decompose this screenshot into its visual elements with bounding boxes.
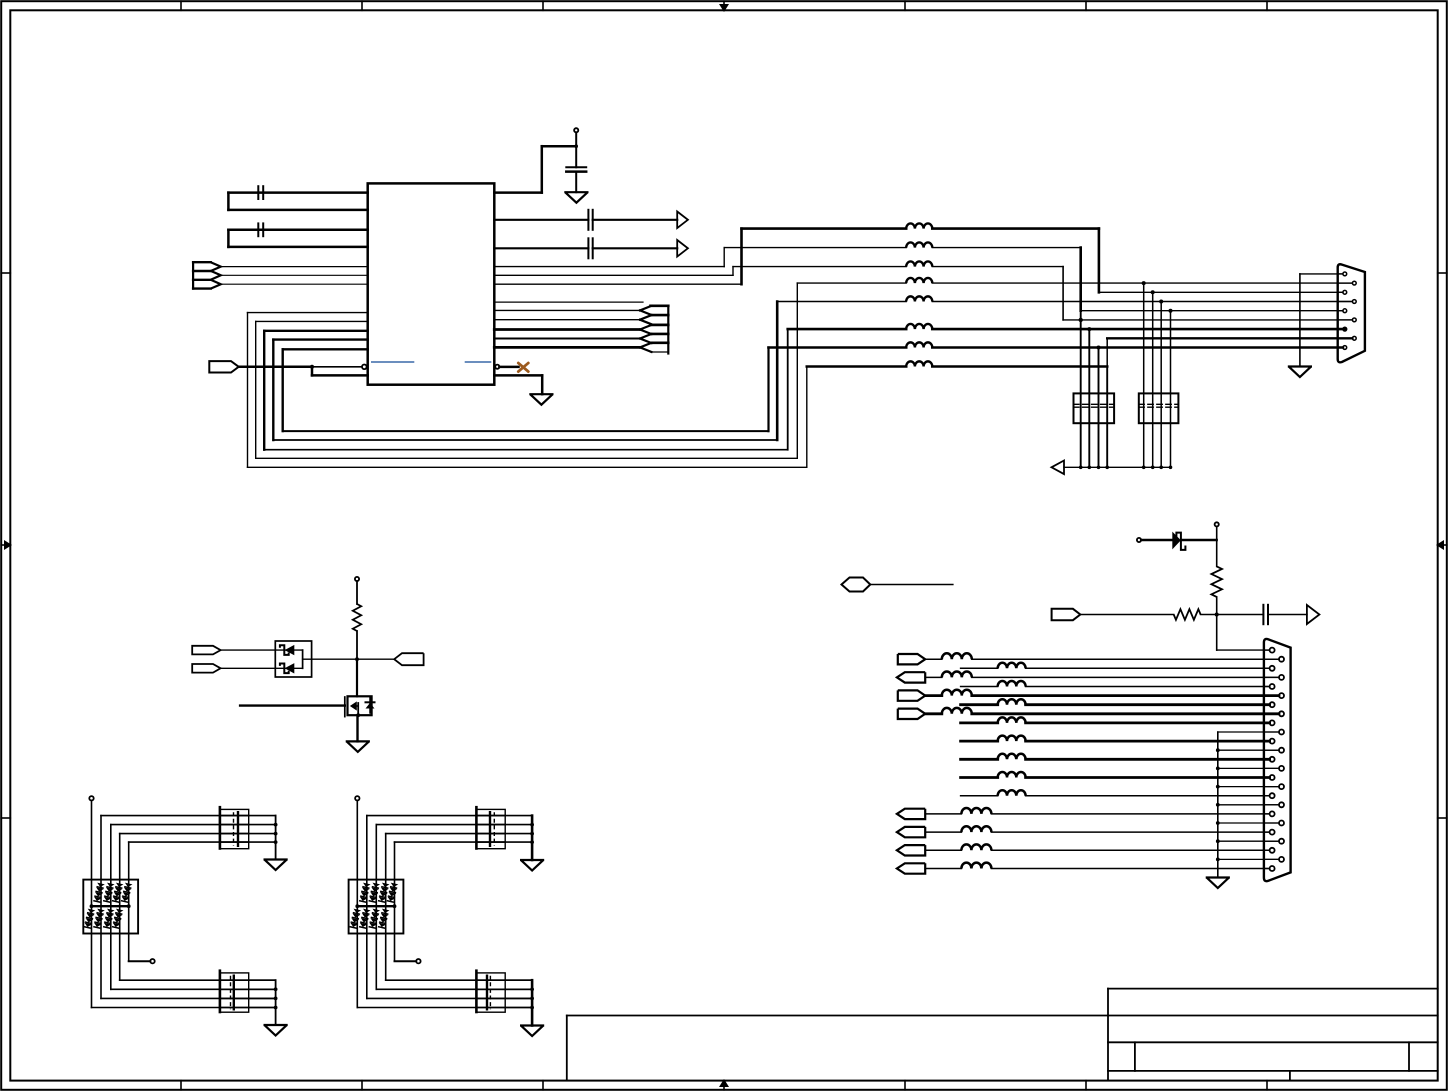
bank2 column d [385,880,387,981]
open arrow TX1 [677,212,688,229]
wire CTL2 [221,667,303,669]
connector J2 pin L12 [1270,848,1275,853]
bank2 cap block bottom plate solid [486,976,488,1010]
ground Q1 [347,741,369,752]
wire bead row 2 left [724,247,906,249]
wire bead row 8 right [932,365,1107,368]
port TXD7 [898,709,925,719]
wire row10 a [961,758,998,761]
wire NETB from U1 [494,274,733,276]
bank1 bottom coll junction [274,987,278,991]
wire bead row 6 right [932,328,1343,331]
bank1 top collector [275,816,277,860]
wire port IN3 to U1 [221,283,368,285]
dual diode D2 upper schottky bar [280,645,289,655]
frame tick top [904,1,906,10]
wire R2 to C6 [1201,614,1264,616]
wire J2 bus to R11 [1218,840,1279,842]
dual diode D2 lower schottky bar [280,664,289,674]
connector J2 pin R4 [1279,711,1284,716]
frame tick top [361,1,363,10]
ground below C3 [565,192,587,203]
bank2 diode bottom col [368,909,380,929]
wire VDD stub [575,132,577,167]
resistor network RN1 element c [1098,348,1100,468]
wire bead row 4 right [932,282,1352,284]
bus entry arrow 3 foot [651,333,669,335]
frame tick top [1085,1,1087,10]
connector J2 pin R6 [1279,748,1284,753]
resistor network RN2 element c [1160,302,1162,468]
connector J2 pin L3 [1270,684,1275,689]
bus entry arrow 2 foot [651,323,669,325]
bank1 top coll junction [274,823,278,827]
connector J2 pin R2 [1279,675,1284,680]
bus entry arrow 4 stub [651,333,669,336]
capacitor C3 plates [566,166,586,168]
ferrite bead FB19 [998,772,1026,777]
frame tick top [180,1,182,10]
bank1 bottom coll junction [274,997,278,1001]
wire J2 bus to R8 [1218,786,1279,788]
bank2 column e [394,880,396,962]
bank1 stub wire [129,960,151,962]
bank1 supply wire [91,801,93,1008]
ferrite bead FB21 [961,808,991,814]
dual diode D2 lower triangle [285,663,295,673]
bank2 bottom cap wires [476,979,532,981]
wire bead row 7 right [932,346,1343,349]
resistor network RN2 element b [1152,292,1154,467]
bus entry arrow 4 foot [651,342,669,344]
wire stub pin [494,301,643,303]
wire VDD pin [494,191,542,194]
transistor Q1 arrow [350,701,357,710]
wire row2 a [961,667,998,669]
pin circle VCC Q1 [355,577,359,581]
transistor Q1 channel stub [357,703,359,715]
wire row7 b [972,712,1279,715]
wire VDD up [541,146,544,192]
ferrite bead FB11 [942,672,972,678]
resistor network RN1 box [1074,393,1115,423]
RN2 inner dash1 [1139,403,1179,405]
wire J1 gnd bus [1299,274,1301,367]
wire D1 cathode [1182,539,1217,541]
wire row15 b [991,849,1269,851]
title block line row2 [1108,1041,1438,1043]
wire row7 a [925,712,942,715]
port TXD1 [898,654,925,664]
wire VCC Q1 [356,581,358,604]
frame tick bottom [1085,1081,1087,1090]
bank2 diode bottom col [349,909,361,929]
diode D1 [1172,532,1181,550]
wire BIDIR [870,584,953,586]
resistor R1 (vertical) [1211,566,1222,597]
wire pullup top [1216,527,1218,567]
bank1 column c [110,880,112,990]
bank2 ground top [521,860,543,871]
bank1 top coll junction [274,840,278,844]
ground J2 [1207,878,1229,889]
wire J2 bus to R9 [1218,804,1279,806]
bus entry arrow 2 upper [640,315,652,320]
wire row8 a [961,722,998,725]
bank1 bottom collector [275,980,277,1025]
wire row16 b [991,868,1269,870]
bank1 column b [100,880,102,999]
port TXD5 [898,690,925,700]
wire SIG [1080,614,1173,616]
port BIDIR [842,578,871,592]
connector J2 pin L5 [1270,720,1275,725]
connector J2 pin L10 [1270,811,1275,816]
wire row4 b [1026,686,1270,688]
no-connect X marker [518,363,528,372]
title block left edge [1107,989,1109,1081]
wire bead row 3 right [932,266,1063,268]
bank2 cap block top left bar [475,807,478,848]
wire row2 to L3 [1081,310,1343,312]
bank1 top bend y833.6 [119,834,121,880]
wire row13 b [991,813,1269,815]
IC U1 body [368,183,495,384]
ferrite bead FB22 [961,826,991,832]
bus entry arrow 1 upper [640,306,652,311]
resistor R2 (series) [1174,609,1201,620]
wire net LOOP5 right vertical [767,348,769,432]
wire C3 to gnd [575,172,577,193]
wire bead row 5 right [932,301,1352,303]
port IN1 arrow [211,262,221,271]
wire XTAL2 bottom [228,246,367,249]
transistor Q1 body [348,696,372,715]
bus entry arrow 5 foot [651,351,669,353]
junction R1/R2 [1215,613,1219,617]
frame center marker right [1442,544,1447,546]
bank2 top wire y824.6 [376,824,505,826]
wire XTAL2 left [227,230,230,247]
wire net LOOP4 bottom horizontal [273,439,777,441]
bank2 ground bottom [521,1026,543,1037]
wire row12 b [1026,795,1270,797]
bank1 bottom coll junction [274,1006,278,1010]
ferrite bead FB3 [906,261,932,266]
wire J2 gnd bus [1217,732,1219,878]
bank1 diode top col [93,883,105,903]
wire net LOOP2 right vertical [796,283,798,458]
wire TX2 from U1 [494,247,588,249]
wire row9 b [1026,740,1270,743]
dual diode D2 box [275,641,311,677]
frame tick left [1,272,10,274]
wire NETB up [732,267,734,276]
ferrite bead FB18 [998,754,1026,759]
wire XTAL1 top [228,191,367,194]
junction rail [1142,466,1146,470]
resistor network RN2 box [1139,393,1179,423]
junction J2 bus [1216,785,1220,789]
port group stub [193,261,211,263]
wire port IN2 to U1 [221,274,368,276]
bank1 bottom wire 1 [120,979,276,981]
bus entry arrow 3 lower [640,330,652,335]
connector J1 pin L3 [1343,309,1347,313]
wire net LOOP4 left vertical [272,340,274,440]
title block top edge [1108,988,1438,990]
ferrite bead FB4 [906,278,932,283]
port RXD13 [897,809,925,819]
wire row16 a [925,868,961,870]
wire net LOOP5 bottom horizontal [283,430,769,432]
junction RN1b [1087,327,1091,331]
frame tick right [1438,817,1447,819]
bank1 bottom cap wires [220,979,276,981]
frame tick bottom [361,1081,363,1090]
ferrite bead FB16 [998,717,1026,722]
junction RN2d [1169,309,1173,313]
revision box [566,1016,568,1081]
bank2 bottom wire 4 [357,1007,532,1009]
wire J2 bus to R10 [1218,822,1279,824]
wire net LOOP2 bottom horizontal [256,457,798,459]
wire row5 a [925,694,942,697]
wire C6 to arrow [1268,614,1307,616]
ferrite bead FB23 [961,844,991,850]
resistor network RN2 element d [1170,311,1172,468]
bank1 ground top [265,860,287,871]
wire bead row 7 left [769,346,907,349]
connector J2 pin L1 [1270,648,1275,653]
connector J1 pin R4 [1352,336,1356,340]
resistor network RN1 element b [1088,329,1090,467]
connector J2 pin R8 [1279,784,1284,789]
junction J2 bus [1216,858,1220,862]
resistor network RN1 element d [1106,367,1108,468]
bank2 diode top col [359,883,371,903]
title block divider a [1134,1042,1136,1071]
wire row9 a [961,740,998,743]
capacitor C1 plates [257,186,259,199]
bus entry arrow 3 upper [640,325,652,330]
wire bead row 4 left [797,282,906,284]
connector J2 pin R10 [1279,821,1284,826]
junction RN2c [1159,300,1163,304]
ferrite bead FB7 [906,342,932,347]
bank1 top coll junction [274,832,278,836]
capacitor C5 plates [587,238,589,258]
port RESET [209,361,238,372]
wire row3 b [972,676,1279,678]
resistor network RN2 element a [1143,283,1145,467]
wire RESET branch down [311,367,314,376]
ground below U1 [530,394,552,405]
junction RN2b [1151,290,1155,294]
port RXD15 [897,845,925,855]
frame tick bottom [1266,1081,1268,1090]
wire D2 out [312,658,395,660]
bank2 stub circle [416,959,420,963]
bank2 top bend y842.1 [394,842,396,880]
bank1 top bend y815.6 [100,816,102,880]
bank1 cap block top left bar [219,807,222,848]
RN2 inner dash2 [1139,406,1179,408]
inverted pin circle U1 left [362,365,367,370]
frame tick bottom [542,1081,544,1090]
junction Q1 node [355,657,359,661]
connector J2 pin R11 [1279,839,1284,844]
junction rail [1159,466,1163,470]
bank2 array bus [357,905,394,907]
wire J2 bus to R12 [1218,858,1279,860]
pin circle R-pullup top [1215,522,1219,526]
bank1 diode bottom col [103,909,115,929]
frame center marker top [723,1,725,6]
frame tick top [542,1,544,10]
wire bead row 2 right [932,247,1080,249]
bank2 top collector [531,816,534,860]
wire RN common rail [1064,466,1171,468]
bank1 array bus [92,905,129,907]
connector J2 pin R12 [1279,857,1284,862]
bus entry arrow 4 upper [640,334,652,339]
connector J1 pin L4 [1343,327,1347,331]
bank2 cap block top plate dashed [493,812,495,846]
bank1 ground bottom [265,1025,287,1036]
wire CTL1 [221,649,303,651]
wire node down [356,659,358,696]
wire bead row 3 left [733,266,906,268]
wire row13 a [925,813,961,815]
bank1 stub circle [150,959,154,963]
wire net LOOP3 bottom horizontal [264,449,788,451]
connector J1 pin L5 [1343,346,1347,350]
frame tick bottom [180,1081,182,1090]
wire U1 to bus entry 5 [494,346,640,349]
connector J1 pin R3 [1352,318,1356,322]
bank2 diode bottom col [359,909,371,929]
wire J1 gnd bus top [1300,273,1343,275]
port IN2 arrow [211,271,221,280]
bank2 column c [375,880,377,990]
title block line row1 [1108,1015,1438,1017]
junction rail [1105,466,1109,470]
bank2 top wire y815.6 [367,815,505,817]
bus entry arrow 1 lower [640,310,652,315]
wire bead row 1 left [742,227,907,230]
connector J1 pin R2 [1352,300,1356,304]
wire bead row 6 left [788,328,907,331]
wire TX2 to arrow [593,247,678,249]
port group stub [193,279,211,281]
wire row1 down [1098,229,1101,293]
wire NC stub [499,366,518,369]
capacitor C4 plates [587,210,589,230]
bank2 bottom coll junction [530,1006,534,1010]
bus entry arrow 4 lower [640,339,652,344]
bank1 diode array box [83,880,138,934]
wire row14 a [925,831,961,833]
connector J1 pin R1 [1352,281,1356,285]
bank2 bottom wire 1 [386,979,532,981]
bank2 top coll junction [530,840,534,844]
connector J2 pin L6 [1270,739,1275,744]
wire row6 a [961,703,998,706]
title block divider b [1408,1042,1410,1071]
ferrite bead FB9 [942,653,972,659]
bus entry arrow 1 foot [651,314,669,316]
bank2 top bend y824.6 [375,825,377,880]
transistor Q1 body diode [369,697,371,713]
connector J2 body [1264,639,1291,881]
wire row3 to R3 [1063,319,1352,321]
wire down to J2 pin L1 [1216,615,1218,651]
open arrow rail [1052,461,1065,475]
wire NETC up [740,229,743,285]
connector J2 pin L7 [1270,757,1275,762]
wire net LOOP1 bottom horizontal [248,466,807,468]
port IN3 arrow [211,280,221,289]
wire row10 b [1026,758,1270,761]
wire RESET [239,366,312,369]
bank2 bottom coll junction [530,987,534,991]
bank1 bottom wire 3 [101,997,276,999]
bank1 cap block bottom left bar [219,971,222,1012]
wire net LOOP2 U1 pin [256,320,368,322]
connector J2 pin R1 [1279,657,1284,662]
wire row11 b [1026,776,1270,779]
wire Q1 source [356,715,358,741]
bank2 bottom wire 3 [367,997,532,999]
wire row6 b [1026,703,1270,706]
ferrite bead FB10 [998,663,1026,668]
pin circle D1 anode [1137,538,1141,542]
port group stub [193,270,211,272]
wire U1 to bus entry 3 [494,328,640,331]
port CTL1 [192,646,220,655]
port CTL2 [192,664,220,673]
ferrite bead FB24 [961,863,991,869]
wire row1 b [972,658,1279,660]
wire net LOOP3 U1 pin [264,330,368,332]
connector J2 pin L13 [1270,866,1275,871]
bus entry arrow 5 lower [640,347,652,352]
RN1 inner dash1 [1074,403,1115,405]
bank2 bottom wire 2 [376,988,532,990]
ferrite bead FB15 [942,708,972,714]
wire row4 a [961,686,998,688]
ferrite bead FB1 [906,223,932,228]
ferrite bead FB5 [906,296,932,301]
wire J2 bus to R6 [1218,749,1279,751]
wire XTAL2 top [228,229,367,232]
wire D1 anode [1141,539,1172,541]
bank2 cap block bottom plate dashed [489,976,491,1010]
bank1 cap block top plate solid [237,812,239,846]
bus entry arrow 5 stub [651,341,669,344]
connector J2 pin R9 [1279,802,1284,807]
bank1 top wire y842.1 [129,841,249,843]
port SIG [1052,609,1081,620]
ferrite bead FB8 [906,361,932,366]
bank2 top coll junction [530,823,534,827]
wire row1 to L2 [1099,291,1343,293]
bank2 column b [366,880,368,999]
wire row15 a [925,849,961,851]
bank2 top wire y833.6 [386,833,506,835]
wire row3 down [1062,267,1064,320]
